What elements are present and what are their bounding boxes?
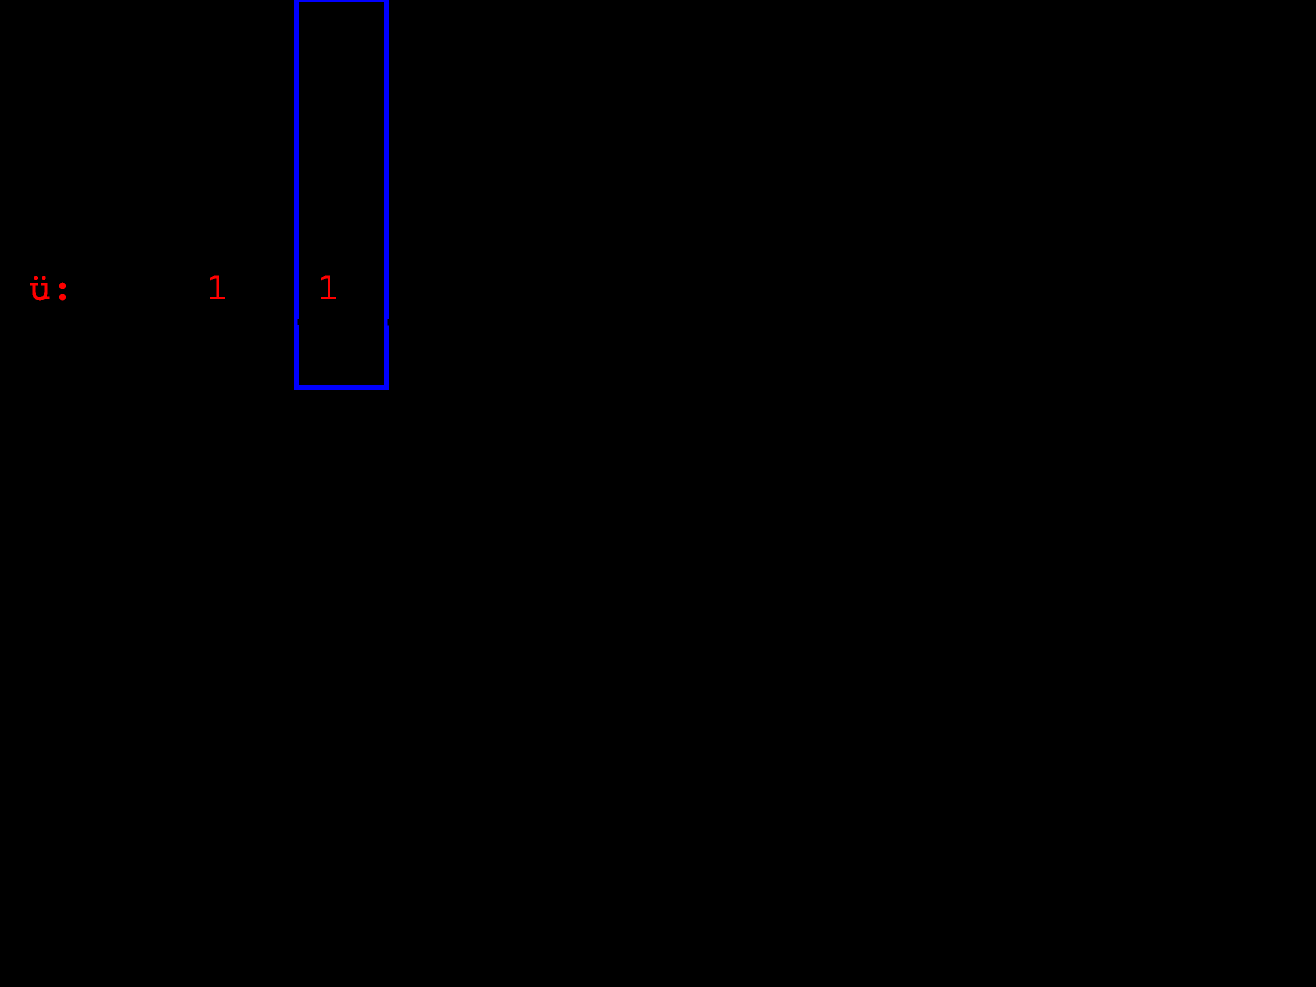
value "1" in first column (red) (210, 276, 225, 300)
black notch on outer side of right border of selection box (388, 319, 389, 325)
label "ü" (red, Courier-style glyph) (30, 276, 49, 299)
label ":" (red colon dots) (59, 283, 66, 301)
selection box (blue highlighted cell, top edge cut off at screen top) (297, 0, 387, 387)
value "1" inside selection box (red) (321, 276, 336, 300)
black notch on inner side of left border of selection box (298, 319, 299, 325)
